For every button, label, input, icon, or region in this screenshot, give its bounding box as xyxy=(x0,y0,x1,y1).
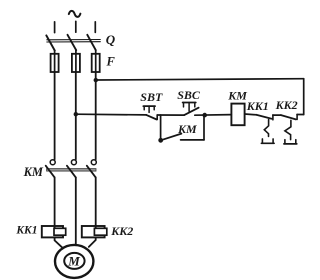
svg-text:KK2: KK2 xyxy=(110,224,133,238)
wire SBT to SBC xyxy=(157,114,184,116)
thermal element KK2 xyxy=(82,226,107,237)
wire phase L2 lower vertical xyxy=(75,177,77,244)
switch Q pole 1 blade xyxy=(46,35,55,50)
wire phase L3 vertical xyxy=(95,72,97,159)
wire phase L1 top stub xyxy=(54,22,56,33)
svg-text:F: F xyxy=(106,55,116,69)
svg-text:KK1: KK1 xyxy=(15,225,37,237)
switch Q linkage bar xyxy=(47,40,101,43)
wire phase L2 top stub xyxy=(75,21,77,32)
node branch bottom left xyxy=(158,138,163,143)
fuse F1 xyxy=(51,51,59,73)
wire phase L1 vertical xyxy=(54,72,56,159)
svg-text:SBC: SBC xyxy=(177,88,201,102)
pushbutton SBC xyxy=(183,103,199,116)
switch Q pole 2 blade xyxy=(68,35,77,50)
wire phase L1 lower vertical xyxy=(54,177,56,228)
svg-text:KM: KM xyxy=(227,88,247,102)
wire phase L3 lower vertical xyxy=(95,177,97,228)
contact KK2 xyxy=(281,114,304,143)
wire SBC to coil xyxy=(195,114,232,117)
svg-text:M: M xyxy=(67,254,80,269)
wire branch left vertical xyxy=(160,115,162,140)
wire coil to KK1 xyxy=(245,113,257,116)
wire right rail xyxy=(303,79,305,115)
wire branch right vertical xyxy=(203,115,205,140)
wire phase L2 vertical xyxy=(75,72,77,159)
wire phase L3 top stub xyxy=(94,22,96,33)
svg-text:KM: KM xyxy=(177,122,197,136)
node phase L3 tap xyxy=(94,78,98,82)
svg-text:KM: KM xyxy=(23,165,44,179)
wire top rail xyxy=(96,79,304,80)
fuse F3 xyxy=(92,50,100,72)
thermal element KK1 xyxy=(42,226,66,237)
contactor KM main contact pole 1 xyxy=(46,160,56,178)
svg-text:KK1: KK1 xyxy=(246,99,269,113)
AC source symbol ~ xyxy=(69,11,81,17)
node phase L2 tap xyxy=(74,112,78,116)
switch Q pole 3 blade xyxy=(87,35,96,50)
pushbutton SBT xyxy=(143,106,157,119)
contact KK1 xyxy=(256,115,281,144)
svg-text:SBT: SBT xyxy=(140,90,163,104)
contact KM auxiliary xyxy=(161,134,204,141)
contactor KM main contact pole 3 xyxy=(87,160,97,178)
node after SBC xyxy=(202,113,207,118)
svg-text:KK2: KK2 xyxy=(275,98,298,112)
contactor KM main contact pole 2 xyxy=(67,160,77,178)
contactor KM main linkage bar xyxy=(47,169,96,172)
svg-text:Q: Q xyxy=(106,32,116,47)
wire motor lead 3 xyxy=(89,237,96,247)
motor M xyxy=(55,245,93,278)
wire control line to SBT xyxy=(76,113,147,116)
fuse F2 xyxy=(72,50,80,72)
coil KM xyxy=(231,104,244,126)
wire motor lead 1 xyxy=(55,237,63,247)
